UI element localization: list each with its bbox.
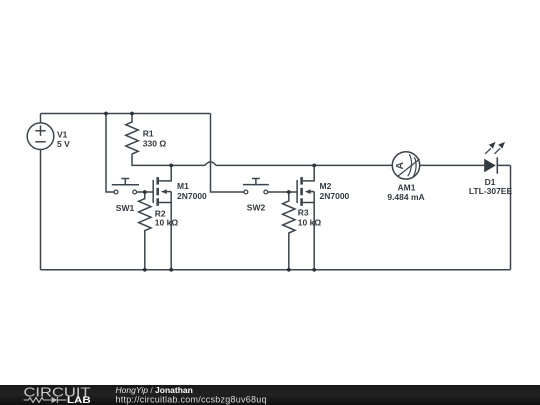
svg-text:A: A bbox=[394, 161, 406, 169]
svg-text:http://circuitlab.com/ccsbzg8u: http://circuitlab.com/ccsbzg8uv68uq bbox=[116, 394, 267, 404]
wire mid rail to ammeter bbox=[216, 164, 392, 166]
transistor M1 (NMOS 2N7000) bbox=[153, 165, 171, 269]
resistor R1 bbox=[126, 114, 138, 155]
svg-text:2N7000: 2N7000 bbox=[320, 191, 350, 201]
wire SW2 drive from top rail bbox=[211, 114, 244, 193]
svg-text:M1: M1 bbox=[177, 181, 189, 191]
LED D1 bbox=[484, 142, 505, 174]
node top rail / R1 bbox=[130, 112, 134, 116]
node top rail / SW1 drive bbox=[104, 112, 108, 116]
node mid rail / M2 drain bbox=[312, 164, 316, 168]
label V1 value bbox=[57, 130, 70, 149]
label R3 value bbox=[298, 207, 322, 227]
svg-text:5 V: 5 V bbox=[57, 139, 70, 149]
wire SW1 to M1 gate bbox=[137, 191, 154, 193]
switch SW1 bbox=[112, 179, 139, 194]
voltage source V1 bbox=[27, 123, 54, 150]
wire hop over SW2 drive bbox=[205, 162, 216, 166]
footer CircuitLab logo wordmark bbox=[24, 384, 91, 399]
svg-text:330 Ω: 330 Ω bbox=[143, 139, 167, 149]
footer logo circuit glyph (resistor + diode) bbox=[24, 397, 67, 403]
svg-text:SW1: SW1 bbox=[116, 203, 135, 213]
svg-text:SW2: SW2 bbox=[247, 203, 266, 213]
svg-text:9.484 mA: 9.484 mA bbox=[387, 192, 424, 202]
node M2 gate / R3 bbox=[287, 190, 291, 194]
wire bottom rail bbox=[41, 269, 511, 271]
node bottom rail / M2 source bbox=[312, 268, 316, 272]
wire right rail bbox=[510, 165, 512, 269]
svg-text:10 kΩ: 10 kΩ bbox=[155, 218, 179, 228]
svg-text:LAB: LAB bbox=[67, 395, 91, 405]
resistor R2 bbox=[139, 192, 151, 270]
footer bar bbox=[0, 385, 540, 405]
svg-text:R1: R1 bbox=[143, 128, 154, 138]
node mid rail / M1 drain bbox=[169, 164, 173, 168]
node M1 gate / R2 bbox=[143, 190, 147, 194]
label M2 part number bbox=[320, 181, 350, 201]
wire top rail from V1 to SW2 drive corner bbox=[41, 113, 211, 115]
node bottom rail / M1 source bbox=[169, 268, 173, 272]
wire LED cathode to right rail bbox=[497, 164, 510, 166]
wire R1 bottom to hop bbox=[132, 154, 205, 165]
wire SW2 to M2 gate bbox=[268, 191, 297, 193]
svg-text:R3: R3 bbox=[298, 207, 309, 217]
wire V1 top lead bbox=[40, 114, 42, 124]
resistor R3 bbox=[283, 192, 295, 270]
svg-text:M2: M2 bbox=[320, 181, 332, 191]
svg-text:10 kΩ: 10 kΩ bbox=[298, 217, 322, 227]
node junction dots bbox=[104, 112, 316, 272]
wire ammeter to LED anode bbox=[420, 164, 485, 166]
label M1 part number bbox=[177, 181, 207, 201]
wire SW1 drive from top rail bbox=[106, 114, 114, 193]
node bottom rail / R3 bbox=[287, 268, 291, 272]
transistor M2 (NMOS 2N7000) bbox=[297, 165, 314, 269]
label R2 value bbox=[155, 208, 179, 227]
node bottom rail / R2 bbox=[143, 268, 147, 272]
label D1 part number bbox=[469, 177, 513, 196]
svg-text:2N7000: 2N7000 bbox=[177, 191, 207, 201]
switch SW2 bbox=[243, 179, 269, 194]
ammeter AM1 bbox=[392, 152, 419, 179]
svg-text:AM1: AM1 bbox=[398, 183, 416, 193]
wire V1 bottom lead (left rail) bbox=[40, 150, 42, 270]
label R1 value bbox=[143, 128, 167, 148]
svg-text:LTL-307EE: LTL-307EE bbox=[469, 186, 513, 196]
label AM1 reading bbox=[387, 183, 424, 203]
